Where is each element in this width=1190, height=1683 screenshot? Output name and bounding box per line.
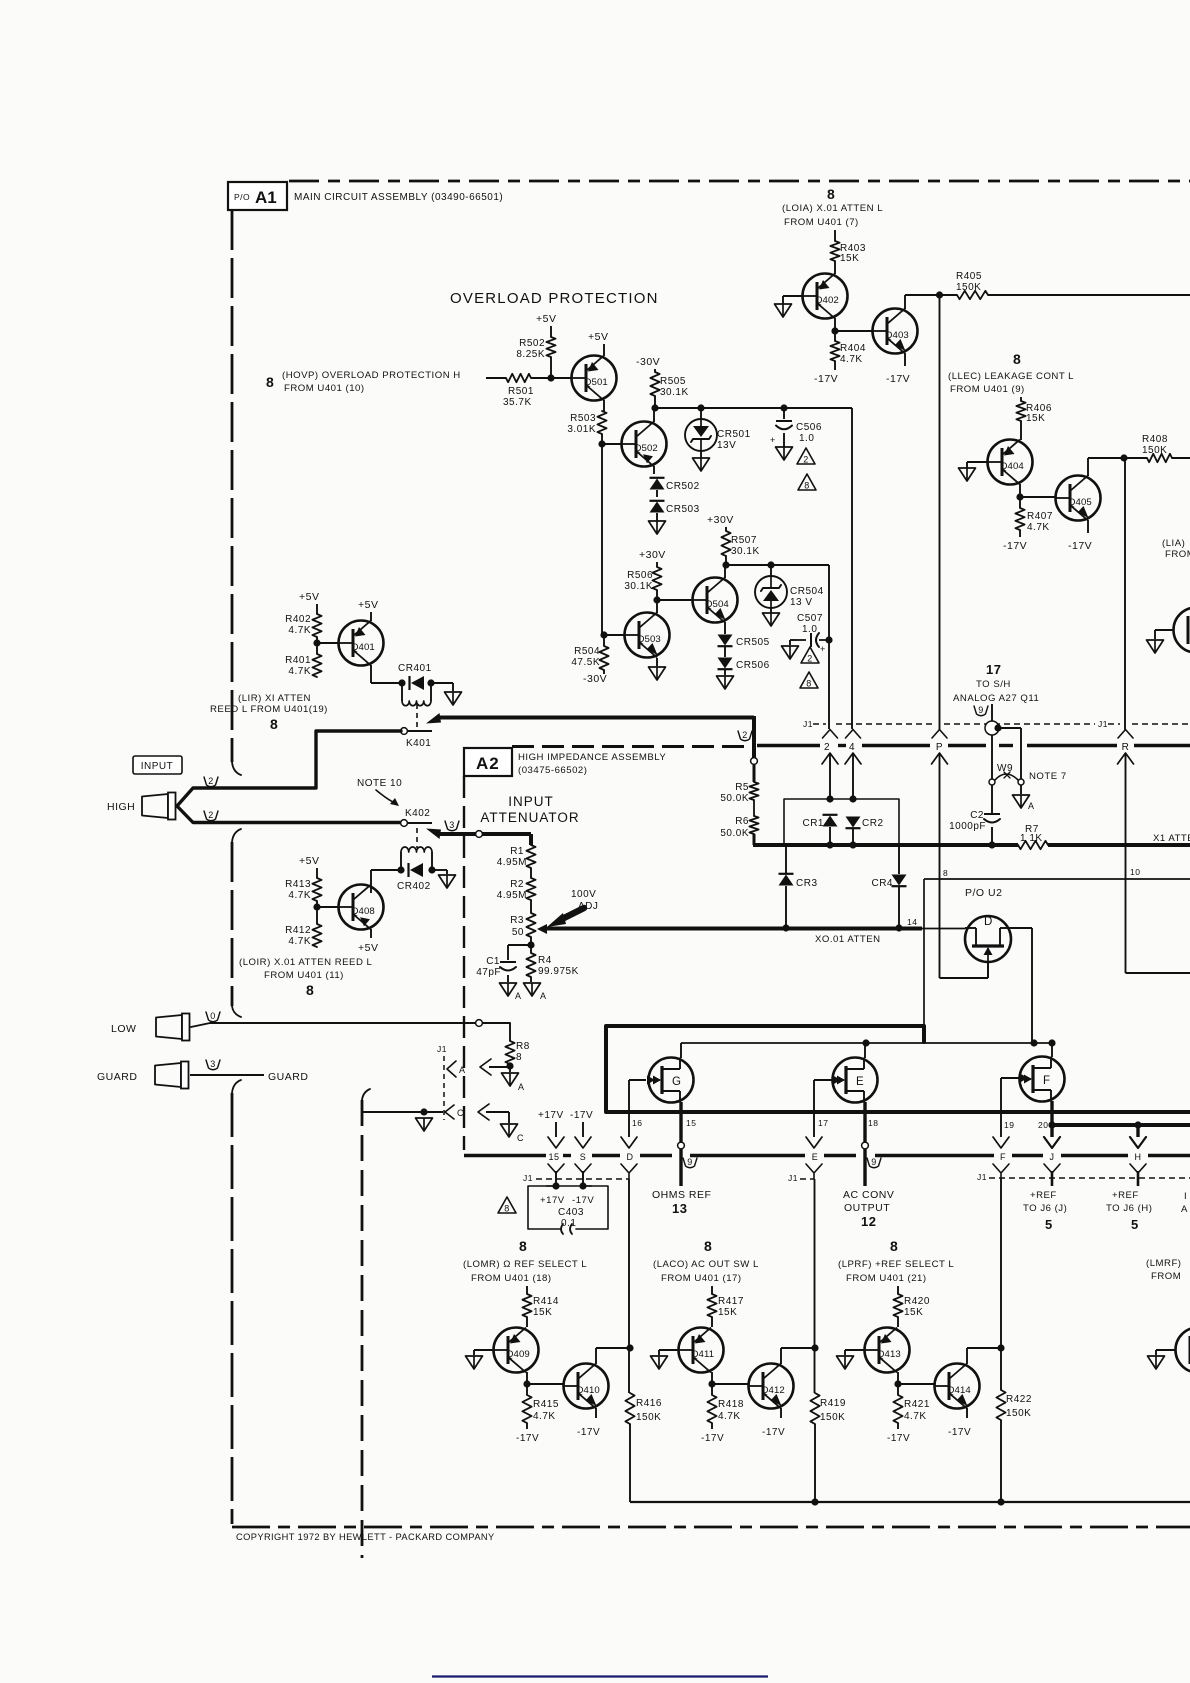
resistor R416 [625,1393,662,1424]
ground CR401 [445,692,462,705]
chevron below 15 [548,1164,564,1179]
svg-text:FROM: FROM [1165,549,1190,560]
resistor R408 [1142,434,1172,462]
transistor Q404 [988,440,1033,485]
wire node to Q401 base [317,642,338,644]
svg-text:9: 9 [978,705,984,715]
svg-text:Q413: Q413 [877,1349,901,1360]
resistor R413 [285,878,322,901]
wire R413-R412 node [316,901,318,924]
arrow into pin A [480,1059,491,1075]
chevron below H [1130,1164,1146,1179]
svg-text:CR506: CR506 [736,660,770,671]
resistor R3 [510,913,535,938]
resistor R407 [1015,508,1053,533]
svg-text:3: 3 [210,1059,216,1069]
power -17V Q410 [577,1427,600,1438]
pin 4 chevron above [846,730,861,739]
svg-text:R6: R6 [735,816,749,827]
resistor R414 [522,1294,559,1318]
node junction below R3 [527,941,534,948]
wire Q504 emitter down [724,622,726,634]
svg-text:8: 8 [266,374,274,390]
connector circle A2 pin2 [751,758,758,765]
svg-text:8: 8 [804,481,810,491]
power -17V label R404 [814,373,838,385]
svg-text:8.25K: 8.25K [516,349,545,360]
svg-text:19: 19 [1004,1120,1014,1130]
label 100V ADJ [547,889,598,927]
svg-text:GUARD: GUARD [268,1071,308,1083]
svg-text:8: 8 [806,679,812,689]
svg-text:-17V: -17V [886,373,910,385]
svg-text:+17V: +17V [540,1195,565,1206]
ground partial lower [1148,1356,1165,1369]
wire INPUT high upper branch [177,731,401,806]
svg-text:HIGH: HIGH [107,801,135,813]
label 18 [868,1118,878,1128]
svg-text:20: 20 [1038,1120,1048,1130]
wire F drain up [1051,1043,1053,1057]
svg-text:Q402: Q402 [815,295,839,306]
power -17V label Q405 [1068,540,1092,552]
svg-text:R421: R421 [904,1399,930,1410]
svg-text:R402: R402 [285,614,311,625]
wire C2 to bus [991,827,993,845]
transistor Q413 [865,1328,910,1373]
bus X0.01 ATTEN [545,929,922,946]
wire C507 to pin2 [828,640,830,729]
svg-text:Q502: Q502 [634,443,658,454]
svg-text:Q401: Q401 [351,642,375,653]
wire G drain up [680,1043,682,1058]
wire pinS to C403 [582,1171,584,1186]
ground below Q503 [649,667,666,680]
ground below CR506 [717,676,734,689]
wire R420 to Q413 [897,1317,899,1327]
svg-text:2: 2 [824,742,830,753]
resistor R5 [720,782,758,804]
svg-text:13: 13 [672,1201,687,1216]
svg-text:150K: 150K [1142,445,1167,456]
node junction CR401 right [427,679,434,686]
ground CR402 [439,875,456,888]
svg-text:R415: R415 [533,1399,559,1410]
svg-text:R2: R2 [510,879,524,890]
svg-text:P: P [936,742,943,753]
node junction C507 right [825,636,832,643]
label 17 [818,1118,828,1128]
power -30V label R505 [636,356,660,368]
power -17V Q414 [948,1427,971,1438]
relay coil K401 [402,683,431,706]
pin R arrow below [1118,753,1134,879]
resistor R6 [720,816,758,839]
guard shield dashed line [362,1089,370,1558]
svg-text:4.95M: 4.95M [497,890,527,901]
wiper arrow R3 [537,924,547,934]
connector circle pin 15 [678,1142,685,1149]
resistor R406 [1016,401,1052,424]
wire pin J stem [1051,1171,1054,1186]
A1 title text [294,192,503,203]
svg-text:MAIN CIRCUIT ASSEMBLY (0349: MAIN CIRCUIT ASSEMBLY (03490-66501) [294,192,503,203]
power +5V label Q408 [358,942,378,954]
flag 9 pin18 [867,1157,881,1168]
wire pin14 to FET D [922,928,965,930]
transistor Q501 [572,356,617,401]
svg-text:-17V: -17V [1068,540,1092,552]
pin H label [1135,1152,1142,1162]
ground below CR503 [649,521,666,534]
wire shield to pin C [362,1111,443,1113]
svg-text:4.7K: 4.7K [288,666,311,677]
svg-text:COPYRIGHT 1972 BY HEWLETT -: COPYRIGHT 1972 BY HEWLETT - PACKARD COMP… [236,1532,495,1542]
diode CR401 [398,663,432,690]
wire +5V to Q501 emitter [603,344,605,356]
svg-text:FROM U401 (11): FROM U401 (11) [264,970,344,981]
svg-text:R418: R418 [718,1399,744,1410]
wire W9 left to C2 [991,785,993,813]
blue page mark line [432,1675,768,1677]
resistor R501 [503,374,534,408]
wire R3 to node [530,937,532,945]
svg-text:-17V: -17V [577,1427,600,1438]
power -17V Q412 [762,1427,785,1438]
svg-text:13V: 13V [717,440,736,451]
title INPUT ATTENUATOR [480,794,579,825]
wire Q411 collector node [711,1372,713,1384]
svg-text:8: 8 [890,1238,898,1254]
svg-text:FROM U401 (10): FROM U401 (10) [284,383,365,394]
wire C507 left to ground [790,640,797,645]
svg-text:R407: R407 [1027,511,1053,522]
svg-text:12: 12 [861,1214,876,1229]
wire pin C to ground [486,1112,509,1123]
node junction Q401 base [313,639,320,646]
svg-text:Q410: Q410 [576,1385,600,1396]
node junction R405/pinP line [936,291,943,298]
wire R1 to R2 [530,868,532,878]
label J1 line2 [523,1173,629,1183]
svg-text:9: 9 [687,1157,693,1167]
label 19 [1004,1120,1014,1130]
svg-text:CR3: CR3 [796,878,818,889]
node junction C506 top [780,404,787,411]
svg-text:1.0: 1.0 [799,433,814,444]
wire R415 to -17V [526,1423,528,1429]
pin J label [1050,1152,1055,1162]
resistor R412 [285,924,322,947]
pin 2 label [824,742,830,753]
power -17V R415 [516,1433,539,1444]
ground Q413 base [837,1356,854,1369]
svg-text:15K: 15K [533,1307,552,1318]
wire ground to Q404 base [967,462,987,468]
svg-text:-17V: -17V [570,1110,593,1121]
flag 9 pin15 [683,1157,697,1168]
node Q409/Q410 [523,1380,530,1387]
svg-text:8: 8 [704,1238,712,1254]
label J1 connector1 left [803,719,826,729]
ground below CR504 [763,613,780,626]
resistor R403 [830,241,866,264]
svg-text:C1: C1 [486,956,500,967]
svg-text:GUARD: GUARD [97,1071,137,1083]
svg-text:8: 8 [306,982,314,998]
label J1 pinE [788,1173,814,1183]
svg-text:ATTENUATOR: ATTENUATOR [480,810,579,825]
svg-text:CR503: CR503 [666,504,700,515]
svg-text:(LOIA) X.01 ATTEN L: (LOIA) X.01 ATTEN L [782,203,883,214]
arrow into pin C [478,1104,489,1120]
svg-text:15: 15 [686,1118,696,1128]
svg-text:+5V: +5V [299,855,319,867]
power -17V R418 [701,1433,724,1444]
wire GUARD stub [190,1071,308,1083]
connector jack HIGH [142,793,176,820]
svg-text:FROM U401 (21): FROM U401 (21) [846,1273,927,1284]
assembly A1 border bottom dash-dot line [232,1526,1190,1529]
svg-text:A: A [1028,801,1035,811]
svg-text:15K: 15K [904,1307,923,1318]
svg-text:A: A [518,1082,525,1092]
node CR3 bottom [782,924,789,931]
wire R507 to node [725,556,727,565]
svg-text:J1: J1 [977,1172,987,1182]
svg-text:3.01K: 3.01K [567,424,596,435]
pin S label [580,1152,587,1162]
svg-text:+5V: +5V [588,331,608,343]
svg-text:R420: R420 [904,1296,930,1307]
bus X1 ATTEN y845 [753,833,1190,845]
wire pin R lower [1126,879,1190,973]
svg-text:HIGH IMPEDANCE ASSEMBLY: HIGH IMPEDANCE ASSEMBLY [518,752,666,763]
wire G source to OHMS REF [679,1149,682,1186]
svg-text:R5: R5 [735,782,749,793]
svg-text:R1: R1 [510,846,524,857]
wire CR505 to CR506 [724,647,726,657]
power +30V label R507 [707,514,734,526]
svg-text:A1: A1 [255,188,277,207]
svg-text:150K: 150K [636,1412,661,1423]
wire Q503 emitter to ground [656,658,658,666]
svg-text:(LIA): (LIA) [1162,538,1185,549]
assembly A1 border left dashed line upper [232,210,241,1524]
svg-text:R412: R412 [285,925,311,936]
svg-text:K402: K402 [405,808,430,819]
copyright text [236,1532,495,1542]
svg-text:R503: R503 [570,413,596,424]
connector jack LOW [156,1014,190,1041]
label K401 [406,738,431,749]
wire CR401 to ground [431,683,453,691]
wire base node to Q503 [602,634,624,636]
transistor Q412 [749,1364,794,1409]
pin C chevron [445,1105,454,1119]
capacitor C1 [476,956,516,978]
power -17V R421 [887,1433,910,1444]
svg-text:-17V: -17V [572,1195,594,1206]
svg-text:A: A [515,991,522,1001]
svg-text:R505: R505 [660,376,686,387]
svg-text:5: 5 [1045,1217,1053,1232]
warning triangle 8 C403 [498,1197,516,1214]
svg-text:50.0K: 50.0K [720,793,749,804]
flag 3 A2 entry [445,820,459,831]
wire Q402 collector to node [834,318,836,331]
svg-text:P/O: P/O [234,192,250,202]
node pin H [1134,1121,1141,1128]
ground A below R4 [524,983,547,1001]
svg-text:4.7K: 4.7K [1027,522,1050,533]
svg-text:+REF: +REF [1030,1190,1057,1201]
svg-text:15K: 15K [1026,413,1045,424]
zener diode CR501 [685,408,751,452]
cut text right edge [1181,1191,1188,1215]
svg-text:1.0: 1.0 [802,624,817,635]
U2 left edge [923,879,925,1026]
wire S/H down [991,704,993,721]
wire E drain up [864,1043,866,1058]
svg-text:FROM U401 (7): FROM U401 (7) [784,217,859,228]
pin E label [812,1152,819,1162]
wire Q401 emitter up [370,612,372,621]
svg-text:R414: R414 [533,1296,559,1307]
svg-text:4.7K: 4.7K [288,625,311,636]
svg-text:H: H [1135,1152,1142,1162]
wire thick corner to R1 [529,834,533,845]
svg-text:Q405: Q405 [1068,497,1092,508]
node LMRF text [1146,1258,1182,1282]
svg-text:3: 3 [449,820,455,830]
svg-text:+: + [820,644,826,654]
wire +30V to R507 [725,527,727,531]
node Q414 collector join [997,1344,1004,1351]
label NOTE 7 [1029,771,1067,782]
svg-text:E: E [812,1152,819,1162]
P/O A1 title box [228,182,287,210]
svg-text:CR401: CR401 [398,663,432,674]
svg-text:+30V: +30V [639,549,666,561]
node junction Q404/Q405 [1016,493,1023,500]
node C403 -17 [579,1182,586,1189]
wire node to Q403 base [835,330,872,332]
wire Q401 collector to CR401 [371,665,401,683]
wire E source down [863,1102,866,1142]
wire LLEC to R406 [1020,397,1022,401]
svg-text:13 V: 13 V [790,597,813,608]
wire Q503 collector [656,600,658,613]
transistor Q409 [494,1328,539,1373]
wire node to R418 [711,1384,713,1395]
label 16 [632,1118,642,1128]
svg-text:30.1K: 30.1K [660,387,689,398]
svg-text:47.5K: 47.5K [571,657,600,668]
ground below CR501 [693,458,710,471]
wire pin E lower vertical [814,1179,817,1502]
wire F gate down [993,1074,1028,1149]
node junction pin9 [994,724,1001,731]
pin P chevron above [932,730,947,739]
wire ground to Q411 base [659,1350,679,1355]
svg-text:K401: K401 [406,738,431,749]
svg-text:FROM: FROM [1151,1271,1181,1282]
J1 dashed connector1 [836,719,1190,729]
label INPUT boxed [133,756,182,774]
svg-text:J1: J1 [788,1173,798,1183]
svg-text:2: 2 [208,810,214,820]
arrow -17V pinS [570,1110,593,1148]
svg-text:I: I [1184,1191,1187,1202]
svg-text:(03475-66502): (03475-66502) [518,765,587,776]
resistor R8 [505,1041,529,1064]
capacitor C507 [797,633,829,654]
svg-text:Q412: Q412 [761,1385,785,1396]
note 10 text [357,778,402,806]
diode CR505 [718,635,770,649]
wire Q504 collector up [724,565,726,578]
node E drain [862,1039,869,1046]
connector circle A2 pin3 [476,831,483,838]
wire Q412 emitter down [780,1408,782,1418]
wire Q405 collector to -17V [1087,520,1089,533]
chevron below J [1044,1164,1060,1179]
node (LPRF) +REF SELECT L text [838,1238,954,1284]
svg-text:OHMS REF: OHMS REF [652,1189,711,1201]
svg-text:8: 8 [827,186,835,202]
node Q413/Q414 [894,1380,901,1387]
fet G [649,1058,694,1103]
wire Q414 collector up [967,1348,1001,1364]
svg-text:R401: R401 [285,655,311,666]
svg-text:8: 8 [516,1052,522,1063]
wire pin9 to W9 [998,728,1021,779]
node pin J [1048,1121,1055,1128]
svg-text:2: 2 [803,455,809,465]
svg-text:R419: R419 [820,1398,846,1409]
wire CR502 to CR503 [656,490,658,497]
wire HOVP to Q501 base [486,377,571,379]
wire y565 corner to C507 [828,565,830,640]
resistor R401 [285,654,322,677]
pin 2 chevron above [823,730,838,739]
wire Q403 collector to -17V [904,353,906,366]
resistor R506 [624,567,661,592]
wire gate D corner [940,962,989,978]
wire R421 to -17V [897,1423,899,1429]
wire node to C1 [508,945,531,960]
svg-text:100V: 100V [571,889,596,900]
svg-text:R502: R502 [519,338,545,349]
wire thick X1 corner down [752,716,756,758]
diode CR1 [802,815,837,829]
svg-text:R413: R413 [285,879,311,890]
label 20 [1038,1120,1048,1130]
svg-text:-17V: -17V [762,1427,785,1438]
svg-text:50.0K: 50.0K [720,828,749,839]
bus bottom y1502 [630,1501,1190,1503]
wire Q501 collector to R503 [603,400,605,411]
pin 15 label line2 [548,1152,559,1162]
wire node to Q412 base [712,1383,749,1385]
wire CR1 to bus [829,827,831,845]
wire drain bus y1043 [681,1042,1052,1044]
svg-text:(LIR) XI ATTEN: (LIR) XI ATTEN [238,693,311,704]
svg-text:8: 8 [1013,351,1021,367]
svg-text:-17V: -17V [1003,540,1027,552]
svg-text:+5V: +5V [358,942,378,954]
